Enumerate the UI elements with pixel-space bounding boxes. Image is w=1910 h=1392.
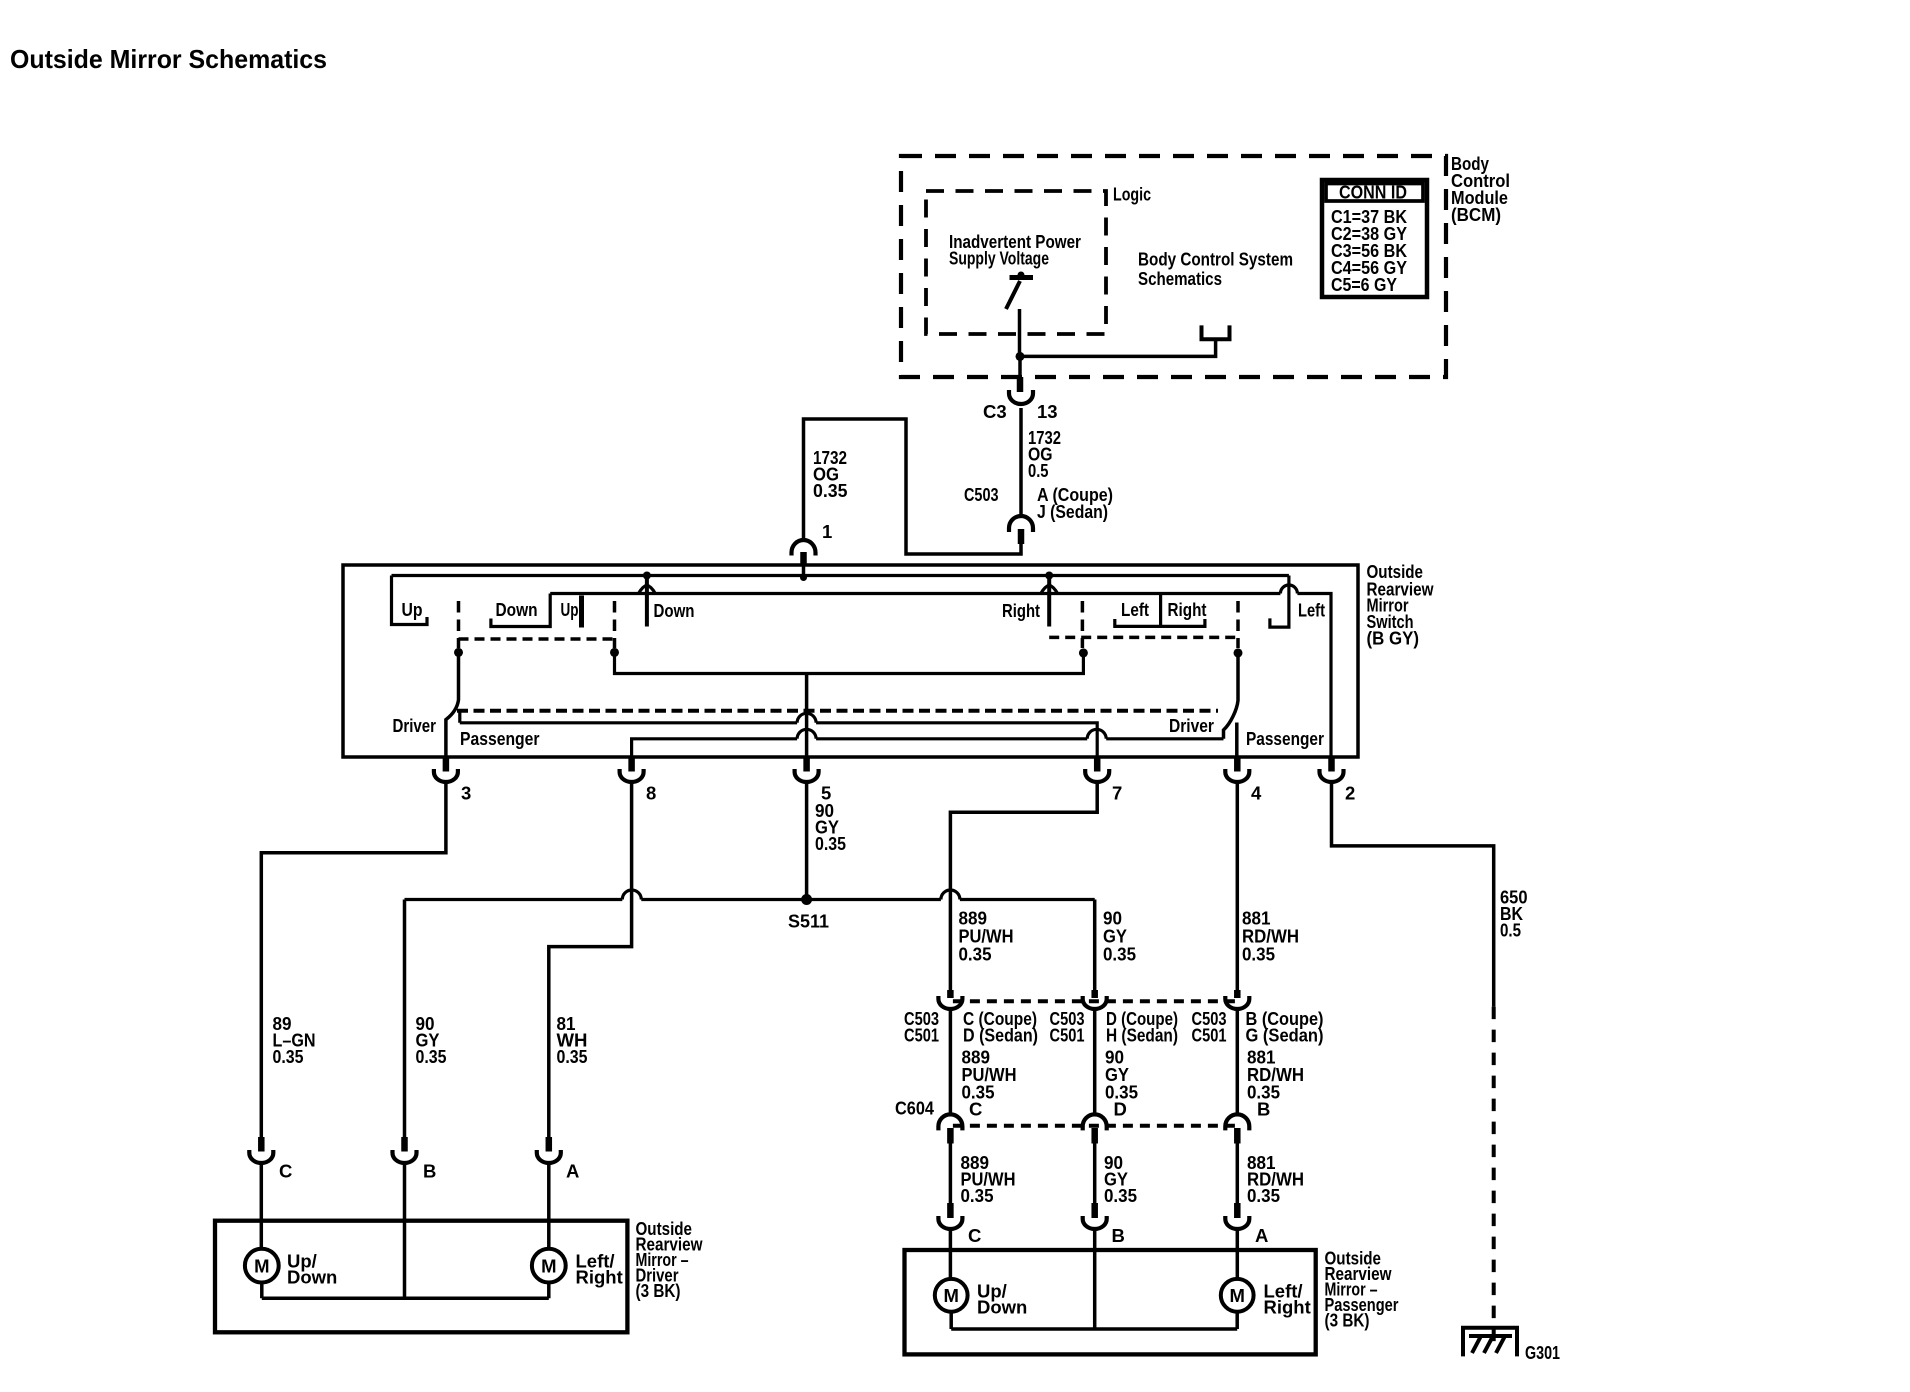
svg-text:A: A bbox=[1255, 1225, 1268, 1246]
svg-text:C: C bbox=[279, 1161, 292, 1182]
hop of line E over pin5 wire bbox=[797, 713, 816, 722]
hop of line D over pin5 wire bbox=[797, 729, 816, 739]
link wire line C bbox=[615, 652, 1084, 673]
wire pin 2 to ground, 650 BK 0.5 bbox=[1332, 782, 1494, 1007]
Down arrow (movable contact) bbox=[645, 577, 649, 627]
svg-text:8: 8 bbox=[646, 783, 656, 804]
svg-text:Down: Down bbox=[977, 1297, 1027, 1318]
svg-text:0.35: 0.35 bbox=[1247, 1185, 1280, 1206]
Right arrow (movable contact) bbox=[1047, 577, 1051, 627]
svg-text:Driver: Driver bbox=[393, 715, 437, 736]
svg-text:0.35: 0.35 bbox=[416, 1046, 447, 1067]
motor M left/right passenger bbox=[1221, 1279, 1254, 1312]
svg-text:CONN ID: CONN ID bbox=[1339, 182, 1407, 203]
hop of return wire over bus drop bbox=[1280, 585, 1297, 594]
bus drop to Left contact hook bbox=[1270, 576, 1289, 628]
svg-text:4: 4 bbox=[1251, 783, 1262, 804]
wire pin 3 to driver mirror C, 89 L-GN 0.35 bbox=[261, 782, 446, 1139]
connector C503/C501 wire 2 (stub and cup) bbox=[1091, 990, 1098, 998]
outside rearview mirror passenger box bbox=[905, 1250, 1316, 1354]
svg-text:0.35: 0.35 bbox=[813, 480, 848, 501]
svg-text:C501: C501 bbox=[1050, 1025, 1085, 1046]
svg-text:Down: Down bbox=[287, 1267, 337, 1288]
motor M up/down driver bbox=[245, 1249, 279, 1283]
svg-text:(BCM): (BCM) bbox=[1451, 204, 1501, 225]
connector C3 pin 13 (stub and cup) bbox=[1017, 377, 1024, 392]
motor M up/down passenger bbox=[935, 1279, 968, 1312]
svg-text:M: M bbox=[541, 1256, 556, 1277]
wire S511 to C503/C501, 90 GY 0.35 bbox=[1093, 900, 1097, 992]
svg-text:C503: C503 bbox=[964, 484, 999, 505]
ground G301 symbol bbox=[1463, 1328, 1517, 1357]
Left-Right contact bracket bbox=[1115, 594, 1205, 626]
passenger line E to pin 7 bbox=[460, 713, 1097, 758]
svg-text:0.35: 0.35 bbox=[273, 1046, 304, 1067]
svg-text:Driver: Driver bbox=[1169, 715, 1214, 736]
svg-text:C501: C501 bbox=[904, 1025, 939, 1046]
logic dashed box bbox=[926, 191, 1106, 334]
connector pin 4 bbox=[1234, 757, 1241, 772]
svg-text:Right: Right bbox=[1002, 600, 1040, 621]
pin 4 contact riser bbox=[1235, 723, 1239, 758]
svg-text:Logic: Logic bbox=[1113, 184, 1151, 205]
svg-text:0.35: 0.35 bbox=[1103, 944, 1136, 965]
feed bus wire from pin 1 bbox=[392, 574, 1289, 577]
Down-Up contact bracket bbox=[491, 594, 550, 627]
outside rearview mirror driver box bbox=[215, 1221, 627, 1333]
node dot down-arrow bbox=[643, 572, 651, 580]
wire B into driver mirror bbox=[403, 1162, 407, 1299]
Up contact bar bbox=[579, 596, 584, 628]
junction diamond left b bbox=[610, 648, 619, 657]
svg-text:D (Sedan): D (Sedan) bbox=[963, 1025, 1038, 1046]
junction diamond left a bbox=[454, 648, 463, 657]
svg-text:13: 13 bbox=[1037, 401, 1058, 422]
connector C503/C501 wire 3 (stub and cup) bbox=[1234, 990, 1241, 998]
svg-text:M: M bbox=[254, 1256, 269, 1277]
lower mechanical link dashed bbox=[457, 709, 1218, 713]
svg-text:B: B bbox=[1112, 1225, 1125, 1246]
dashed ground wire bbox=[1492, 1007, 1496, 1342]
svg-text:Right: Right bbox=[576, 1267, 623, 1288]
connector C503/C501 wire 1 (stub and cup) bbox=[947, 990, 954, 998]
connector row C503/C501 dashed outline bbox=[953, 999, 1240, 1003]
node junction dot in BCM bbox=[1016, 352, 1025, 361]
wire C into driver mirror bbox=[260, 1162, 264, 1250]
svg-text:C: C bbox=[968, 1225, 981, 1246]
svg-text:0.35: 0.35 bbox=[961, 1185, 994, 1206]
connector pin 1 (cap and stub into switch) bbox=[792, 540, 816, 556]
driver mirror internal bus bbox=[262, 1283, 549, 1299]
svg-text:Body Control System: Body Control System bbox=[1138, 249, 1293, 270]
svg-text:S511: S511 bbox=[788, 911, 829, 932]
connector C503 inline (cap and stub) bbox=[1009, 516, 1033, 532]
svg-text:0.35: 0.35 bbox=[959, 944, 992, 965]
wire C503 to switch pin 1 (routing detour) bbox=[804, 419, 1022, 554]
svg-text:(3 BK): (3 BK) bbox=[636, 1280, 681, 1301]
hop of S511 wire over pin8 drop bbox=[622, 890, 641, 900]
svg-text:Passenger: Passenger bbox=[1246, 728, 1324, 749]
svg-text:Schematics: Schematics bbox=[1138, 268, 1222, 289]
wire C503 to C604 col3, 881 RD/WH 0.35 bbox=[1236, 1008, 1240, 1115]
passenger line D from pin 8 to right blade bbox=[632, 739, 1224, 757]
wire node to logic-return cup bbox=[1018, 339, 1215, 356]
wire pin 7 to C503/C501, 889 PU/WH 0.35 bbox=[950, 782, 1097, 992]
hop of line D over pin7 wire bbox=[1087, 729, 1106, 739]
node dot right-arrow bbox=[1045, 572, 1053, 580]
wire BCM node down through BCM edge bbox=[1018, 356, 1022, 377]
svg-text:1: 1 bbox=[822, 521, 832, 542]
connector C driver mirror (stub and cup) bbox=[258, 1137, 265, 1152]
wire B into passenger mirror bbox=[1093, 1228, 1097, 1330]
hop of S511 wire over pin7 drop bbox=[941, 890, 960, 900]
wire S511 to driver mirror B, 90 GY 0.35 bbox=[403, 900, 407, 1139]
connector pin 2 bbox=[1328, 757, 1335, 772]
mechanical link dashed, left rocker bbox=[457, 601, 461, 648]
logic-return cup symbol bbox=[1202, 325, 1230, 339]
svg-text:Right: Right bbox=[1168, 599, 1207, 620]
connector C604 wire 1 (cap and stub) bbox=[938, 1114, 962, 1130]
svg-text:(3 BK): (3 BK) bbox=[1325, 1310, 1370, 1331]
svg-text:2: 2 bbox=[1345, 783, 1355, 804]
driver left/right rocker blade bbox=[1224, 653, 1239, 739]
svg-text:0.35: 0.35 bbox=[557, 1046, 588, 1067]
connector pin 8 bbox=[628, 757, 635, 772]
connector B driver mirror (stub and cup) bbox=[401, 1137, 408, 1152]
svg-text:Left: Left bbox=[1298, 600, 1325, 621]
svg-text:C5=6 GY: C5=6 GY bbox=[1331, 274, 1398, 295]
CONN ID table frame bbox=[1322, 180, 1427, 297]
svg-text:G301: G301 bbox=[1525, 1342, 1560, 1363]
driver up/down rocker blade to pin 3 bbox=[446, 652, 459, 757]
svg-text:7: 7 bbox=[1112, 783, 1122, 804]
svg-text:0.35: 0.35 bbox=[1242, 944, 1275, 965]
svg-text:J (Sedan): J (Sedan) bbox=[1037, 501, 1108, 522]
wire pin 8 to driver mirror A, 81 WH 0.35 bbox=[549, 782, 632, 1139]
mechanical link dashed, right rocker bbox=[1081, 601, 1085, 648]
junction diamond right a bbox=[1079, 648, 1088, 657]
svg-text:Outside Mirror Schematics: Outside Mirror Schematics bbox=[10, 44, 327, 74]
svg-text:3: 3 bbox=[461, 783, 471, 804]
junction diamond right b bbox=[1234, 648, 1243, 657]
svg-text:0.35: 0.35 bbox=[1104, 1185, 1137, 1206]
svg-text:Down: Down bbox=[654, 600, 695, 621]
svg-text:Supply Voltage: Supply Voltage bbox=[949, 247, 1049, 268]
splice S511 dot bbox=[801, 894, 812, 905]
svg-text:Right: Right bbox=[1264, 1297, 1311, 1318]
common return wire (to pin 2) bbox=[550, 594, 1331, 758]
wire C604 to passenger mirror A, 881 RD/WH 0.35 bbox=[1236, 1143, 1240, 1204]
connector C604 wire 3 (cap and stub) bbox=[1225, 1114, 1249, 1130]
connector pin 7 bbox=[1094, 757, 1101, 772]
wire from switch to node bbox=[1018, 309, 1022, 356]
svg-text:C604: C604 bbox=[895, 1098, 935, 1119]
motor M left/right driver bbox=[532, 1249, 566, 1283]
connector A driver mirror (stub and cup) bbox=[546, 1137, 553, 1152]
svg-text:Down: Down bbox=[496, 599, 538, 620]
svg-text:A: A bbox=[566, 1161, 579, 1182]
body control module BCM dashed box bbox=[901, 156, 1446, 377]
connector C604 wire 2 (cap and stub) bbox=[1083, 1114, 1107, 1130]
wire C3 to C503, 1732 OG 0.5 bbox=[1019, 408, 1023, 516]
wire pin 5 to S511 bbox=[805, 782, 809, 900]
svg-text:0.5: 0.5 bbox=[1028, 460, 1049, 481]
wire C into passenger mirror bbox=[949, 1228, 953, 1280]
svg-text:C3: C3 bbox=[983, 401, 1007, 422]
connector pin 3 bbox=[443, 757, 450, 772]
svg-text:0.35: 0.35 bbox=[815, 833, 846, 854]
wire A into passenger mirror bbox=[1236, 1228, 1240, 1280]
svg-text:Up: Up bbox=[561, 599, 579, 620]
svg-text:0.5: 0.5 bbox=[1500, 920, 1521, 941]
wire C503 to C604 col2, 90 GY 0.35 bbox=[1093, 1008, 1097, 1115]
svg-text:Left: Left bbox=[1121, 599, 1149, 620]
connector pin 5 bbox=[803, 757, 810, 772]
svg-text:(B GY): (B GY) bbox=[1367, 628, 1420, 649]
svg-text:C501: C501 bbox=[1192, 1025, 1227, 1046]
pin 5 internal riser bbox=[805, 674, 809, 758]
connector B passenger mirror (stub and cup) bbox=[1091, 1203, 1098, 1218]
svg-text:B: B bbox=[1257, 1099, 1270, 1120]
connector A passenger mirror (stub and cup) bbox=[1234, 1203, 1241, 1218]
splice S511 bus wire bbox=[405, 898, 1095, 901]
wire C604 to passenger mirror C, 889 PU/WH 0.35 bbox=[949, 1143, 953, 1204]
wire A into driver mirror bbox=[547, 1162, 551, 1250]
wire C503 to C604 col1, 889 PU/WH 0.35 bbox=[949, 1008, 953, 1115]
switch SW1 inadvertent power supply voltage (contact bar and blade) bbox=[1010, 275, 1034, 280]
wire C604 to passenger mirror B, 90 GY 0.35 bbox=[1093, 1143, 1097, 1204]
Up contact bracket (driver up/down) bbox=[392, 576, 428, 625]
CONN ID header cell bbox=[1326, 184, 1423, 202]
svg-text:G (Sedan): G (Sedan) bbox=[1246, 1025, 1324, 1046]
svg-text:Passenger: Passenger bbox=[460, 728, 540, 749]
svg-text:B: B bbox=[423, 1161, 436, 1182]
svg-text:M: M bbox=[1229, 1285, 1244, 1306]
wire pin 4 to C503/C501, 881 RD/WH 0.35 bbox=[1236, 782, 1240, 992]
svg-text:H (Sedan): H (Sedan) bbox=[1106, 1025, 1178, 1046]
outside rearview mirror switch box bbox=[343, 565, 1358, 757]
svg-text:D: D bbox=[1114, 1099, 1127, 1120]
svg-text:M: M bbox=[943, 1285, 958, 1306]
svg-text:C: C bbox=[969, 1099, 982, 1120]
svg-text:Up: Up bbox=[402, 599, 423, 620]
connector C passenger mirror (stub and cup) bbox=[947, 1203, 954, 1218]
passenger mirror internal bus bbox=[951, 1312, 1237, 1329]
